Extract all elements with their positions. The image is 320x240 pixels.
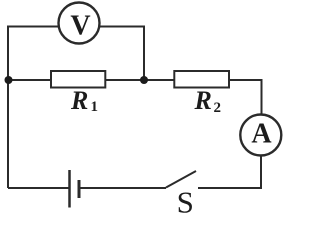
svg-text:2: 2: [214, 100, 222, 116]
svg-text:S: S: [177, 185, 194, 217]
svg-text:A: A: [251, 119, 272, 150]
svg-text:R: R: [194, 86, 212, 115]
svg-text:R: R: [70, 86, 88, 115]
svg-text:1: 1: [91, 99, 99, 115]
svg-text:V: V: [70, 11, 90, 42]
